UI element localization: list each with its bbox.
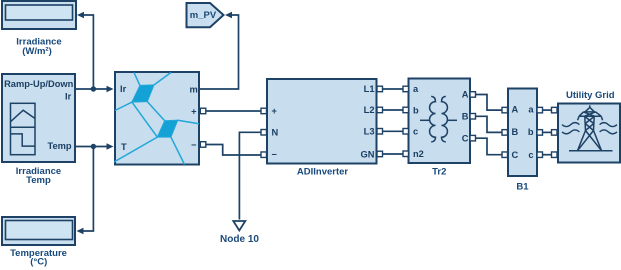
wire W18: B1 c to grid C [543,154,552,156]
svg-text:C: C [512,150,519,160]
svg-text:+: + [272,106,278,116]
wire W6: PV + to inverter + [206,110,262,112]
transformer block Tr2 [409,79,471,178]
wire W5: PV m to m_PV tag [199,12,239,89]
svg-text:m_PV: m_PV [190,10,217,21]
PV port square - [200,142,206,148]
svg-text:+: + [191,106,197,116]
transformer coil icon [420,96,457,142]
utility grid wave lines [562,123,617,134]
svg-text:Temp: Temp [47,141,71,151]
wire W3 Temp: Ramp out to PV T [75,143,114,149]
scope block Irradiance (W/m2) [2,1,76,57]
svg-text:B1: B1 [516,182,529,193]
svg-text:c: c [528,150,533,160]
scope block Temperature (C) [2,217,75,267]
Tr2 port squares left (a,b,c,n2) [403,86,409,156]
svg-text:a: a [413,84,419,94]
caption Irradiance Temp [16,166,61,186]
svg-text:GN: GN [361,149,375,159]
grid port squares left [552,107,558,157]
block B1 [508,89,537,193]
PV array block [115,72,199,165]
B1 port squares left [502,107,508,157]
svg-text:N: N [272,128,279,138]
inverter port squares left (+, N, -) [261,108,267,157]
wire W1 Ir: Ramp out to PV Ir [75,86,114,92]
svg-text:−: − [191,140,197,150]
wire W12: inverter GN to Tr2 n2 [383,153,404,155]
PV port square + [200,108,206,114]
wire W9: inverter L1 to Tr2 a [383,88,404,90]
PV icon panel 2 [157,120,178,137]
PV icon panel 1 [132,85,154,102]
source block Ramp-Up/Down (Irradiance Temp) [2,74,75,162]
wire W15: Tr2 C to B1 C [476,138,503,155]
block Utility Grid [558,90,620,162]
wire W16: B1 a to grid A [543,109,552,111]
svg-text:ADIInverter: ADIInverter [297,167,349,178]
goto tag m_PV [187,3,224,27]
svg-text:Tr2: Tr2 [432,167,446,178]
svg-text:Ir: Ir [65,92,72,102]
wire W10: inverter L2 to Tr2 b [383,109,404,111]
svg-text:Node 10: Node 10 [220,234,259,245]
wire W7: PV - to inverter - [206,145,262,156]
utility grid tower icon [569,105,613,151]
svg-text:Temp: Temp [26,175,51,186]
junction J1 on Ir wire [91,86,96,91]
svg-text:B: B [462,112,469,122]
svg-text:c: c [413,127,418,137]
PV icon lines [114,73,199,165]
wire W13: Tr2 A to B1 A [476,95,503,111]
svg-text:b: b [528,127,534,137]
svg-text:m: m [190,84,198,94]
svg-text:L2: L2 [364,105,375,115]
ground symbol Node 10 [220,221,259,245]
svg-text:C: C [462,133,469,143]
wire W11: inverter L3 to Tr2 c [383,130,404,132]
svg-text:L1: L1 [364,84,375,94]
PV port labels [120,84,198,152]
inverter port squares right (L1,L2,L3,GN) [377,86,383,157]
wire W4: junction down to Temperature scope [77,147,94,235]
svg-text:B: B [512,127,519,137]
ramp icon [11,103,36,154]
svg-text:L3: L3 [364,127,375,137]
svg-text:a: a [528,104,534,114]
svg-text:n2: n2 [413,149,424,159]
wire W8: inverter N to Node 10 ground [239,132,261,219]
wire W2: junction up to Irradiance scope [77,12,93,89]
svg-text:(°C): (°C) [30,256,47,267]
svg-text:A: A [512,104,519,114]
svg-text:−: − [272,150,278,160]
wire W17: B1 b to grid B [543,131,552,133]
Tr2 port squares right (A,B,C) [470,92,476,141]
svg-text:(W/m²): (W/m²) [22,46,52,57]
svg-text:T: T [121,142,127,152]
svg-text:Utility Grid: Utility Grid [566,90,615,101]
svg-text:b: b [413,105,419,115]
B1 port squares right [537,107,543,157]
block ADIInverter [267,79,377,178]
svg-text:Ir: Ir [120,84,127,94]
svg-text:A: A [462,90,469,100]
wire W14: Tr2 B to B1 B [476,116,503,132]
svg-text:Ramp-Up/Down: Ramp-Up/Down [4,79,74,89]
junction J2 on Temp wire [91,144,96,149]
